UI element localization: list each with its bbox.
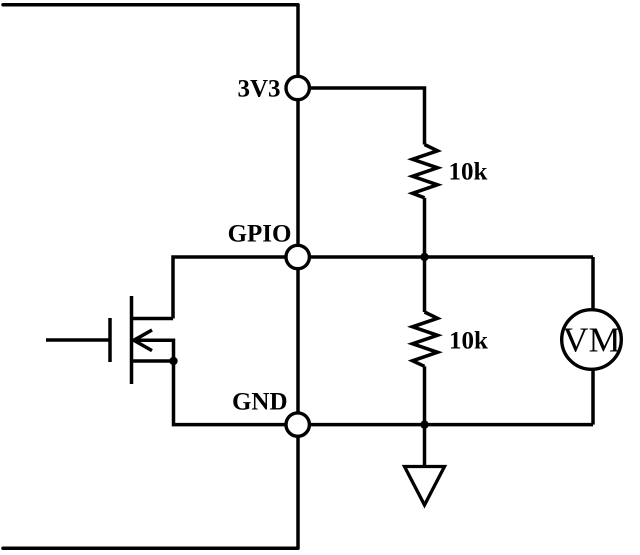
wire GPIO pin to transistor Q1 drain [173,257,287,319]
svg-text:3V3: 3V3 [237,76,280,103]
transistor Q1 gate lead [46,338,110,342]
resistor R1 10k [413,145,438,198]
wire GND node to ground symbol [423,425,427,467]
module border right edge [296,5,300,549]
module border top edge [3,3,298,7]
svg-text:10k: 10k [449,328,488,355]
svg-text:10k: 10k [449,159,488,186]
junction dot GND/ground [420,420,428,428]
wire 3V3 pin to resistor R1 [309,88,425,145]
pin GND terminal circle [286,413,309,436]
wire GPIO node to resistor R2 [423,257,427,312]
wire R1 to GPIO node [423,198,427,257]
svg-text:GND: GND [232,389,288,416]
resistor R2 10k [413,312,438,366]
transistor Q1 drain lead [132,317,174,321]
pin 3V3 terminal circle [286,76,309,99]
wire GPIO to voltmeter top [591,257,595,310]
transistor Q1 source lead [132,359,174,363]
transistor Q1 gate bar [108,318,112,362]
wire GND line from pin to VM branch [309,423,593,427]
wire R2 to GND line [423,366,427,424]
ground symbol [405,467,445,506]
svg-text:GPIO: GPIO [228,221,292,248]
junction dot Q1 source/body [169,357,177,365]
wire GPIO line from pin to VM branch [309,255,593,259]
transistor Q1 body arrow [134,330,152,351]
transistor Q1 channel bar [130,296,134,384]
junction dot GPIO/R2 [420,253,428,261]
module border bottom edge [3,547,298,551]
svg-text:VM: VM [563,321,621,360]
voltmeter VM circle [562,310,622,370]
wire voltmeter bottom to GND line [591,370,595,425]
pin GPIO terminal circle [286,245,309,268]
transistor Q1 body line [135,340,174,361]
wire Q1 source to GND line [174,361,287,425]
